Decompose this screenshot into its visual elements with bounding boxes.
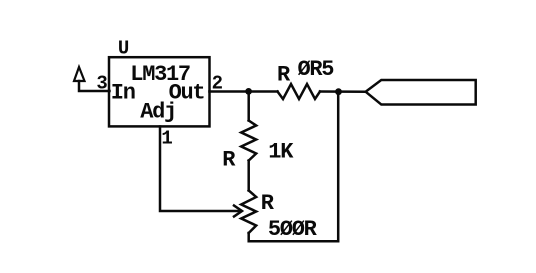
svg-text:2: 2 — [212, 73, 223, 95]
wire node A down to resistor 1K — [247, 92, 250, 121]
resistor R 1K zigzag — [241, 121, 256, 161]
svg-text:1K: 1K — [268, 139, 294, 164]
wire adj pin 1 to wiper — [160, 127, 239, 212]
connector output tag — [366, 80, 476, 105]
wire pot bottom — [249, 92, 339, 242]
wiper arrow — [234, 206, 242, 217]
svg-text:1: 1 — [161, 128, 172, 150]
wire between 1K and pot — [247, 161, 250, 191]
junction node B — [335, 88, 342, 95]
wire node to connector — [320, 90, 366, 93]
svg-text:U: U — [118, 37, 129, 59]
svg-text:ØR5: ØR5 — [298, 57, 335, 82]
wire input stem — [79, 81, 110, 91]
svg-text:5ØØR: 5ØØR — [268, 217, 318, 242]
svg-text:3: 3 — [96, 72, 107, 94]
potentiometer R 500R zigzag — [241, 191, 256, 234]
regulator IC U LM317 body — [109, 57, 210, 126]
svg-text:R: R — [277, 62, 291, 87]
junction node A — [245, 88, 252, 95]
svg-text:R: R — [261, 191, 275, 216]
resistor R 0R5 zigzag — [278, 84, 321, 99]
svg-text:R: R — [222, 148, 236, 173]
wire pin2 out to node — [210, 90, 278, 93]
svg-text:Adj: Adj — [140, 100, 176, 125]
svg-text:In: In — [111, 81, 135, 106]
input port arrow symbol — [74, 67, 85, 81]
